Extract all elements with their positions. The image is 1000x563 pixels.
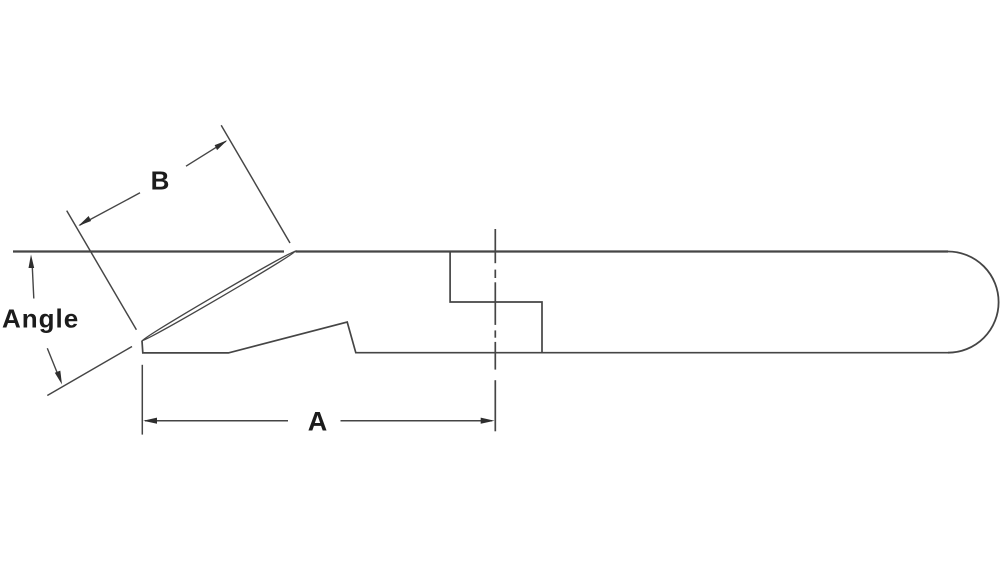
wire bevel extension line <box>47 347 132 396</box>
wire dimension B extension line right <box>221 125 290 243</box>
svg-text:B: B <box>151 165 170 195</box>
node arrow angle lower <box>55 371 62 385</box>
node arrow A right <box>481 418 495 424</box>
wire dimension A line left <box>145 420 288 422</box>
wire dimension B extension line left <box>67 211 137 330</box>
wire dimension B line right <box>186 141 226 166</box>
wire centerline dash-dot <box>494 229 496 431</box>
node arrow angle upper <box>29 255 35 269</box>
wire top line left segment <box>13 250 284 252</box>
wire angle leader lower shaft <box>47 348 57 373</box>
svg-text:Angle: Angle <box>2 303 79 333</box>
wire dimension A extension line <box>141 365 143 435</box>
wire bottom outline <box>142 322 949 353</box>
node arrow B left <box>78 216 91 227</box>
wire dimension B line left <box>80 193 141 226</box>
wire dimension A line right <box>341 420 493 422</box>
node arrow A left <box>143 418 157 424</box>
node nose arc <box>948 252 999 353</box>
wire angle leader upper shaft <box>32 267 34 299</box>
wire top line right segment <box>296 250 949 252</box>
node notch step <box>450 252 542 353</box>
node bevel face sliver <box>141 249 298 343</box>
node arrow B right <box>214 140 227 151</box>
svg-text:A: A <box>308 406 328 436</box>
